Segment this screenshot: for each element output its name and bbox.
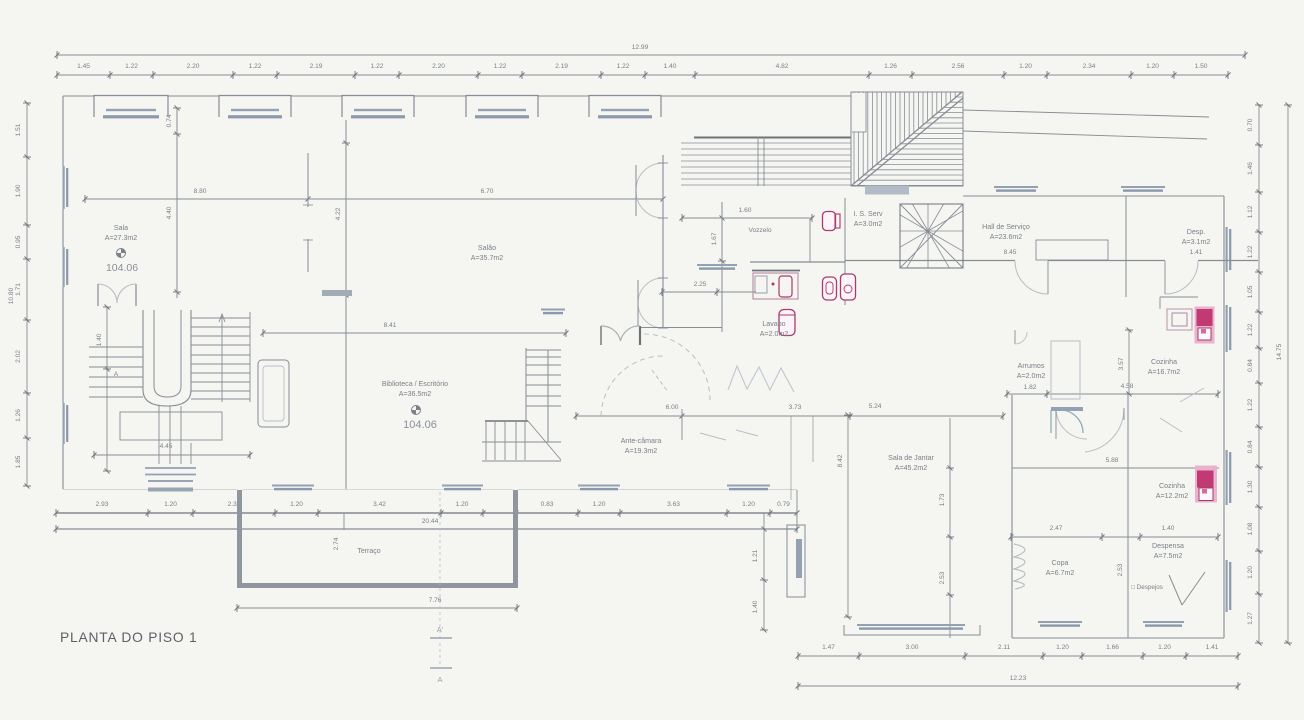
- south window SW4: [727, 485, 770, 487]
- svg-text:1.30: 1.30: [1247, 480, 1254, 493]
- lavabo top wall: [750, 261, 845, 263]
- svg-text:1.67: 1.67: [711, 232, 718, 245]
- dashes misc: [700, 433, 726, 440]
- svg-text:0.84: 0.84: [1247, 440, 1254, 453]
- vertical dim 1.67: [721, 204, 723, 332]
- top segmented dimension line: [57, 74, 1228, 76]
- svg-text:1.46: 1.46: [1247, 162, 1254, 175]
- svg-text:Sala: Sala: [114, 224, 128, 232]
- roof diagonal: [851, 92, 962, 186]
- dim line 2.25: [662, 291, 756, 293]
- svg-text:1.27: 1.27: [1247, 612, 1254, 625]
- svg-text:I. S. Serv: I. S. Serv: [853, 210, 883, 218]
- svg-text:6.70: 6.70: [481, 188, 494, 195]
- svg-text:2.20: 2.20: [187, 63, 200, 70]
- kitchen door arcs: [1056, 408, 1087, 439]
- bottom window BW2: [1143, 621, 1184, 623]
- hall counter: [1036, 240, 1108, 260]
- kitchen1 stove: [1195, 307, 1215, 344]
- svg-text:3.00: 3.00: [906, 644, 919, 651]
- dim line 4.58 / 1.82: [1007, 393, 1218, 395]
- overall top dimension line 12.99: [57, 54, 1245, 56]
- dashed swing arc 1: [601, 356, 663, 416]
- svg-text:3.42: 3.42: [373, 501, 386, 508]
- svg-text:1.26: 1.26: [884, 63, 897, 70]
- svg-text:8.80: 8.80: [194, 188, 207, 195]
- svg-text:1.22: 1.22: [1247, 245, 1254, 258]
- wall north right: [963, 195, 1108, 197]
- right window RW3: [1226, 560, 1228, 612]
- left window LW3: [63, 403, 65, 444]
- svg-text:A=23.6m2: A=23.6m2: [990, 233, 1023, 241]
- vozzelo wall x722: [721, 202, 723, 332]
- vertical dim 0.74 / 4.40: [176, 108, 178, 298]
- small door arc x1015: [1014, 330, 1016, 344]
- svg-text:A=45.2m2: A=45.2m2: [895, 464, 928, 472]
- north symbol sala: [117, 249, 126, 258]
- right exterior wall: [1223, 196, 1225, 638]
- vertical dim 4.22: [345, 137, 347, 295]
- svg-text:12.23: 12.23: [1010, 675, 1027, 682]
- bottom-left overall dimension line 20.44: [56, 528, 797, 530]
- svg-text:3.57: 3.57: [1118, 357, 1125, 370]
- roof notch: [852, 93, 866, 132]
- despejos door check: [1169, 575, 1182, 605]
- svg-text:A=3.1m2: A=3.1m2: [1182, 238, 1211, 246]
- svg-text:1.22: 1.22: [125, 63, 138, 70]
- svg-text:5.88: 5.88: [1106, 457, 1119, 464]
- svg-text:10.80: 10.80: [8, 287, 15, 304]
- south window SW3: [578, 485, 620, 487]
- vertical dim x950: [949, 418, 951, 638]
- right inner vertical dimension line: [1258, 105, 1260, 643]
- main staircase: [143, 310, 191, 406]
- svg-text:104.06: 104.06: [106, 262, 138, 274]
- svg-text:Terraço: Terraço: [357, 548, 380, 555]
- arrumos closet: [1051, 341, 1080, 399]
- vertical dim 2.74 terrace: [343, 513, 345, 530]
- right window RW1: [1226, 305, 1228, 352]
- left window LW1: [63, 166, 65, 209]
- left vertical dimension line: [26, 103, 28, 486]
- wall salao-biblioteca: [345, 120, 347, 489]
- svg-text:1.22: 1.22: [617, 63, 630, 70]
- svg-text:2.19: 2.19: [555, 63, 568, 70]
- bidet pair: [823, 277, 837, 300]
- svg-text:Sala de Jantar: Sala de Jantar: [888, 454, 934, 462]
- svg-text:A=19.3m2: A=19.3m2: [625, 447, 658, 455]
- svg-text:2.11: 2.11: [998, 644, 1011, 651]
- kitchen1 sink: [1167, 309, 1192, 330]
- south window SW1: [272, 485, 314, 487]
- svg-text:0.83: 0.83: [541, 501, 554, 508]
- svg-text:2.93: 2.93: [96, 501, 109, 508]
- dim line 6.00 / 3.73 / 5.24: [576, 415, 1003, 417]
- bottom window BW1: [1038, 621, 1082, 623]
- svg-text:A=16.7m2: A=16.7m2: [1148, 368, 1181, 376]
- hall door arc2: [1165, 261, 1198, 294]
- svg-text:A=2.0m2: A=2.0m2: [760, 330, 789, 338]
- terrace walls: [237, 490, 242, 588]
- top window W1: [94, 96, 168, 118]
- left exterior wall: [62, 96, 64, 166]
- svg-text:A=27.3m2: A=27.3m2: [105, 234, 138, 242]
- svg-text:A=6.7m2: A=6.7m2: [1046, 569, 1075, 577]
- svg-text:A=12.2m2: A=12.2m2: [1156, 492, 1189, 500]
- svg-text:2.02: 2.02: [15, 350, 22, 363]
- svg-text:1.41: 1.41: [1206, 644, 1219, 651]
- svg-text:104.06: 104.06: [403, 419, 437, 431]
- svg-text:12.99: 12.99: [632, 44, 649, 51]
- svg-text:4.82: 4.82: [776, 63, 789, 70]
- svg-text:2.47: 2.47: [1050, 525, 1063, 532]
- svg-text:1.20: 1.20: [593, 501, 606, 508]
- svg-text:1.45: 1.45: [77, 63, 90, 70]
- svg-text:A=35.7m2: A=35.7m2: [471, 254, 504, 262]
- svg-text:A=3.0m2: A=3.0m2: [854, 220, 883, 228]
- kitchen2 stove: [1195, 466, 1217, 503]
- svg-text:6.00: 6.00: [666, 404, 679, 411]
- roof slanted lines right: [963, 110, 1209, 117]
- double door D2: [638, 278, 663, 303]
- double door D1: [636, 163, 663, 190]
- terrace dimension line 7.76: [237, 607, 517, 609]
- svg-text:1.20: 1.20: [742, 501, 755, 508]
- svg-text:1.47: 1.47: [822, 644, 835, 651]
- svg-text:1.20: 1.20: [290, 501, 303, 508]
- svg-text:Ante-câmara: Ante-câmara: [621, 437, 662, 445]
- plant squiggle: [728, 366, 794, 392]
- chimney: [787, 525, 805, 597]
- svg-text:A: A: [437, 675, 442, 684]
- svg-text:2.25: 2.25: [694, 281, 707, 288]
- svg-text:1.40: 1.40: [96, 333, 103, 346]
- vertical dim 1.21 / 1.40: [763, 513, 765, 630]
- svg-text:Vozzelo: Vozzelo: [748, 227, 771, 234]
- south window SW2: [442, 485, 483, 487]
- svg-text:2.19: 2.19: [310, 63, 323, 70]
- svg-text:1.05: 1.05: [1247, 285, 1254, 298]
- svg-text:Lavabo: Lavabo: [762, 320, 785, 328]
- hall south wall 8.45: [845, 260, 1015, 262]
- svg-text:Hall de Serviço: Hall de Serviço: [982, 223, 1030, 231]
- svg-text:Despensa: Despensa: [1152, 542, 1184, 550]
- salao east wall: [662, 155, 664, 328]
- svg-text:20.44: 20.44: [422, 518, 439, 525]
- svg-text:2.53: 2.53: [939, 571, 946, 584]
- svg-text:4.40: 4.40: [166, 206, 173, 219]
- top window W4: [466, 96, 538, 118]
- svg-text:0.84: 0.84: [1247, 359, 1254, 372]
- dim line 8.41: [263, 332, 566, 334]
- svg-text:14.75: 14.75: [1276, 343, 1283, 360]
- wall sala-salao: [176, 108, 178, 298]
- south wall right: [1012, 637, 1224, 639]
- top-right window TR2: [1121, 186, 1165, 188]
- svg-text:0.74: 0.74: [166, 114, 173, 127]
- vertical dim 3.57: [1128, 330, 1130, 394]
- vozzelo window: [697, 264, 737, 266]
- svg-text:4.22: 4.22: [335, 207, 342, 220]
- right window RW0: [1226, 227, 1228, 272]
- svg-text:1.22: 1.22: [371, 63, 384, 70]
- svg-text:1.51: 1.51: [15, 123, 22, 136]
- dim line 8.80 / 6.70: [85, 198, 663, 200]
- svg-text:8.45: 8.45: [1004, 249, 1017, 256]
- svg-text:1.82: 1.82: [1024, 384, 1037, 391]
- svg-text:Arrumos: Arrumos: [1018, 362, 1045, 370]
- svg-text:1.20: 1.20: [1146, 63, 1159, 70]
- svg-text:4.45: 4.45: [160, 443, 173, 450]
- svg-text:1.20: 1.20: [456, 501, 469, 508]
- svg-text:1.40: 1.40: [752, 600, 759, 613]
- svg-text:5.24: 5.24: [869, 403, 882, 410]
- svg-text:3.63: 3.63: [667, 501, 680, 508]
- vertical dim left of stair: [106, 307, 108, 471]
- svg-text:1.08: 1.08: [1247, 522, 1254, 535]
- svg-text:1.60: 1.60: [739, 207, 752, 214]
- svg-text:2.74: 2.74: [333, 537, 340, 550]
- hall door arc1: [1015, 261, 1048, 294]
- right window RW2: [1226, 450, 1228, 505]
- wc lavabo: [779, 310, 795, 336]
- vertical dim 8.42: [847, 415, 849, 617]
- svg-text:1.71: 1.71: [15, 283, 22, 296]
- svg-text:0.79: 0.79: [777, 501, 790, 508]
- wall y327 with M door: [640, 327, 663, 329]
- svg-text:1.66: 1.66: [1106, 644, 1119, 651]
- copa sink: [1014, 544, 1025, 589]
- top window W5: [589, 96, 661, 118]
- svg-text:1.26: 1.26: [15, 409, 22, 422]
- svg-text:2.56: 2.56: [952, 63, 965, 70]
- bottom-right segmented dimension line: [798, 655, 1238, 657]
- svg-text:2.53: 2.53: [1117, 563, 1124, 576]
- svg-text:1.20: 1.20: [1158, 644, 1171, 651]
- dim line 2.47 / 1.40: [1011, 536, 1218, 538]
- salao couch: [258, 360, 289, 427]
- svg-text:1.22: 1.22: [1247, 323, 1254, 336]
- stair dim 4.45: [94, 454, 250, 456]
- svg-text:2.34: 2.34: [1083, 63, 1096, 70]
- bottom-left segmented dimension line: [56, 512, 797, 514]
- top exterior wall: [63, 95, 94, 97]
- north symbol biblioteca: [412, 406, 421, 415]
- svg-text:1.50: 1.50: [1195, 63, 1208, 70]
- is-serv wall: [844, 198, 846, 305]
- svg-text:1.22: 1.22: [494, 63, 507, 70]
- south wall left section: [63, 489, 237, 491]
- svg-text:Copa: Copa: [1052, 559, 1069, 567]
- svg-text:4.58: 4.58: [1121, 383, 1134, 390]
- top window W3: [342, 96, 414, 118]
- svg-text:0.95: 0.95: [15, 235, 22, 248]
- svg-text:1.20: 1.20: [164, 501, 177, 508]
- svg-text:1.22: 1.22: [1247, 398, 1254, 411]
- desp wall: [1125, 196, 1127, 297]
- stair lower box: [120, 412, 222, 440]
- door leaves x308: [307, 153, 309, 207]
- svg-text:1.20: 1.20: [1056, 644, 1069, 651]
- svg-text:□ Despejos: □ Despejos: [1131, 584, 1163, 591]
- top-right window TR1: [994, 186, 1038, 188]
- svg-text:1.90: 1.90: [15, 184, 22, 197]
- bottom-right overall dimension line 12.23: [798, 685, 1238, 687]
- svg-text:Cozinha: Cozinha: [1151, 358, 1177, 366]
- wall y327 lavabo: [663, 327, 722, 329]
- M double door at hall: [600, 326, 602, 345]
- dim line 1.60: [682, 217, 812, 219]
- wc is-serv: [823, 212, 836, 231]
- library staircase: [525, 348, 527, 421]
- roof under-window: [865, 186, 909, 195]
- svg-text:Biblioteca / Escritório: Biblioteca / Escritório: [382, 380, 448, 388]
- sala de jantar south bracket: [844, 625, 980, 635]
- arrumos teal door: [1051, 410, 1083, 433]
- svg-text:0.70: 0.70: [1247, 118, 1254, 131]
- wall x1012: [1011, 395, 1013, 638]
- dashed swing arc 2: [644, 334, 710, 400]
- svg-text:A=7.5m2: A=7.5m2: [1154, 552, 1183, 560]
- svg-text:2.20: 2.20: [432, 63, 445, 70]
- pergola slats: [681, 142, 851, 144]
- svg-text:8.42: 8.42: [837, 454, 844, 467]
- svg-text:A=2.0m2: A=2.0m2: [1017, 372, 1046, 380]
- svg-text:Salão: Salão: [478, 244, 496, 252]
- M double door sala: [97, 284, 99, 306]
- svg-text:1.20: 1.20: [1247, 566, 1254, 579]
- stair window bars: [145, 467, 196, 469]
- left window LW2: [63, 247, 65, 287]
- svg-text:1.12: 1.12: [1247, 205, 1254, 218]
- svg-text:1.41: 1.41: [1190, 249, 1203, 256]
- svg-text:8.41: 8.41: [384, 322, 397, 329]
- top window W2: [219, 96, 291, 118]
- svg-text:1.21: 1.21: [752, 549, 759, 562]
- right outer overall dimension line 14.75: [1287, 105, 1289, 643]
- wall y537: [1011, 536, 1218, 538]
- svg-text:A: A: [114, 371, 119, 378]
- svg-text:Cozinha: Cozinha: [1159, 482, 1185, 490]
- section marker A bottom: [430, 667, 452, 669]
- svg-text:1.73: 1.73: [939, 493, 946, 506]
- svg-text:1.22: 1.22: [249, 63, 262, 70]
- svg-text:1.40: 1.40: [664, 63, 677, 70]
- svg-text:3.73: 3.73: [789, 404, 802, 411]
- svg-text:Desp.: Desp.: [1187, 228, 1206, 236]
- svg-text:1.40: 1.40: [1162, 525, 1175, 532]
- wall y468: [1012, 467, 1219, 469]
- svg-text:PLANTA DO PISO 1: PLANTA DO PISO 1: [60, 630, 198, 645]
- svg-text:A=36.5m2: A=36.5m2: [399, 390, 432, 398]
- svg-text:1.20: 1.20: [1019, 63, 1032, 70]
- svg-text:1.85: 1.85: [15, 455, 22, 468]
- vanity counter: [752, 270, 800, 272]
- wall x1128: [1127, 394, 1129, 638]
